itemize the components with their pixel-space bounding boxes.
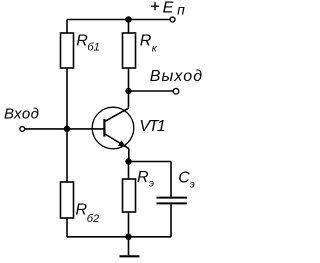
svg-text:э: э <box>190 178 195 190</box>
svg-text:э: э <box>149 177 154 189</box>
svg-text:R: R <box>137 169 149 186</box>
svg-text:E: E <box>163 0 174 16</box>
svg-text:Вход: Вход <box>4 106 39 123</box>
svg-text:R: R <box>76 202 88 219</box>
svg-text:Выход: Выход <box>150 68 204 85</box>
svg-text:R: R <box>76 32 88 49</box>
svg-text:п: п <box>177 2 185 18</box>
svg-text:R: R <box>140 32 152 49</box>
svg-text:VT1: VT1 <box>139 118 164 135</box>
svg-text:б1: б1 <box>87 41 99 53</box>
svg-text:б2: б2 <box>87 213 99 225</box>
svg-text:C: C <box>178 169 190 186</box>
